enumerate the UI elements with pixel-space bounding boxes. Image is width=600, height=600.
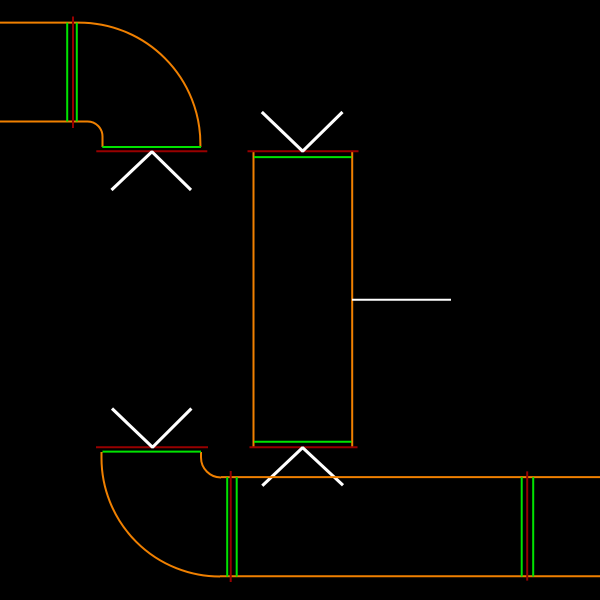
node D1 bottom end line (red) — [250, 446, 358, 448]
node D1 top liner (green) — [254, 156, 352, 158]
node E2 opening end line (red) — [96, 446, 208, 448]
node D1 bottom liner (green) — [254, 441, 352, 443]
node E1 opening end line (red) — [96, 150, 207, 152]
wire E1 outer arc — [79, 23, 200, 147]
wire D1 left wall — [253, 151, 255, 447]
joint J3 centerline (red) — [526, 471, 528, 580]
duct D1 (center vertical duct) — [254, 151, 353, 447]
wire E1 top wall — [0, 22, 79, 24]
joint J2 centerline (red) — [230, 471, 232, 582]
flow arrow A2 (down chevron into D1 top) — [262, 112, 343, 151]
wire E1 inner arc — [88, 122, 103, 148]
node D1 top end line (red) — [248, 150, 359, 152]
elbow E1 (top-left duct elbow, turns down) — [0, 23, 200, 147]
flow arrow A4 (down chevron into E2) — [112, 409, 191, 448]
wire D1 right wall — [351, 151, 353, 447]
joint J3 flange (green pair) — [522, 477, 534, 576]
joint J1 centerline (red) — [72, 17, 74, 129]
flow arrow A1 (up chevron) — [112, 152, 192, 190]
node E2 opening liner (green) — [103, 451, 202, 453]
wire D2 bottom wall — [220, 575, 600, 577]
joint J2 flange (green pair) — [227, 477, 237, 576]
wire E1 bottom wall — [0, 121, 88, 123]
wire E2 inner arc — [201, 452, 221, 478]
elbow E2 (bottom-left elbow, up opening turning right) — [102, 452, 222, 577]
node E1 opening liner (green) — [102, 146, 201, 148]
wire D2 top wall — [221, 476, 600, 478]
duct D2 (bottom horizontal duct) — [220, 477, 600, 576]
leader line L1 — [352, 299, 451, 301]
flow arrow A3 (up chevron under D1 bottom) — [262, 448, 343, 486]
wire E2 outer arc — [102, 452, 221, 577]
joint J1 flange (green pair) — [67, 23, 77, 122]
